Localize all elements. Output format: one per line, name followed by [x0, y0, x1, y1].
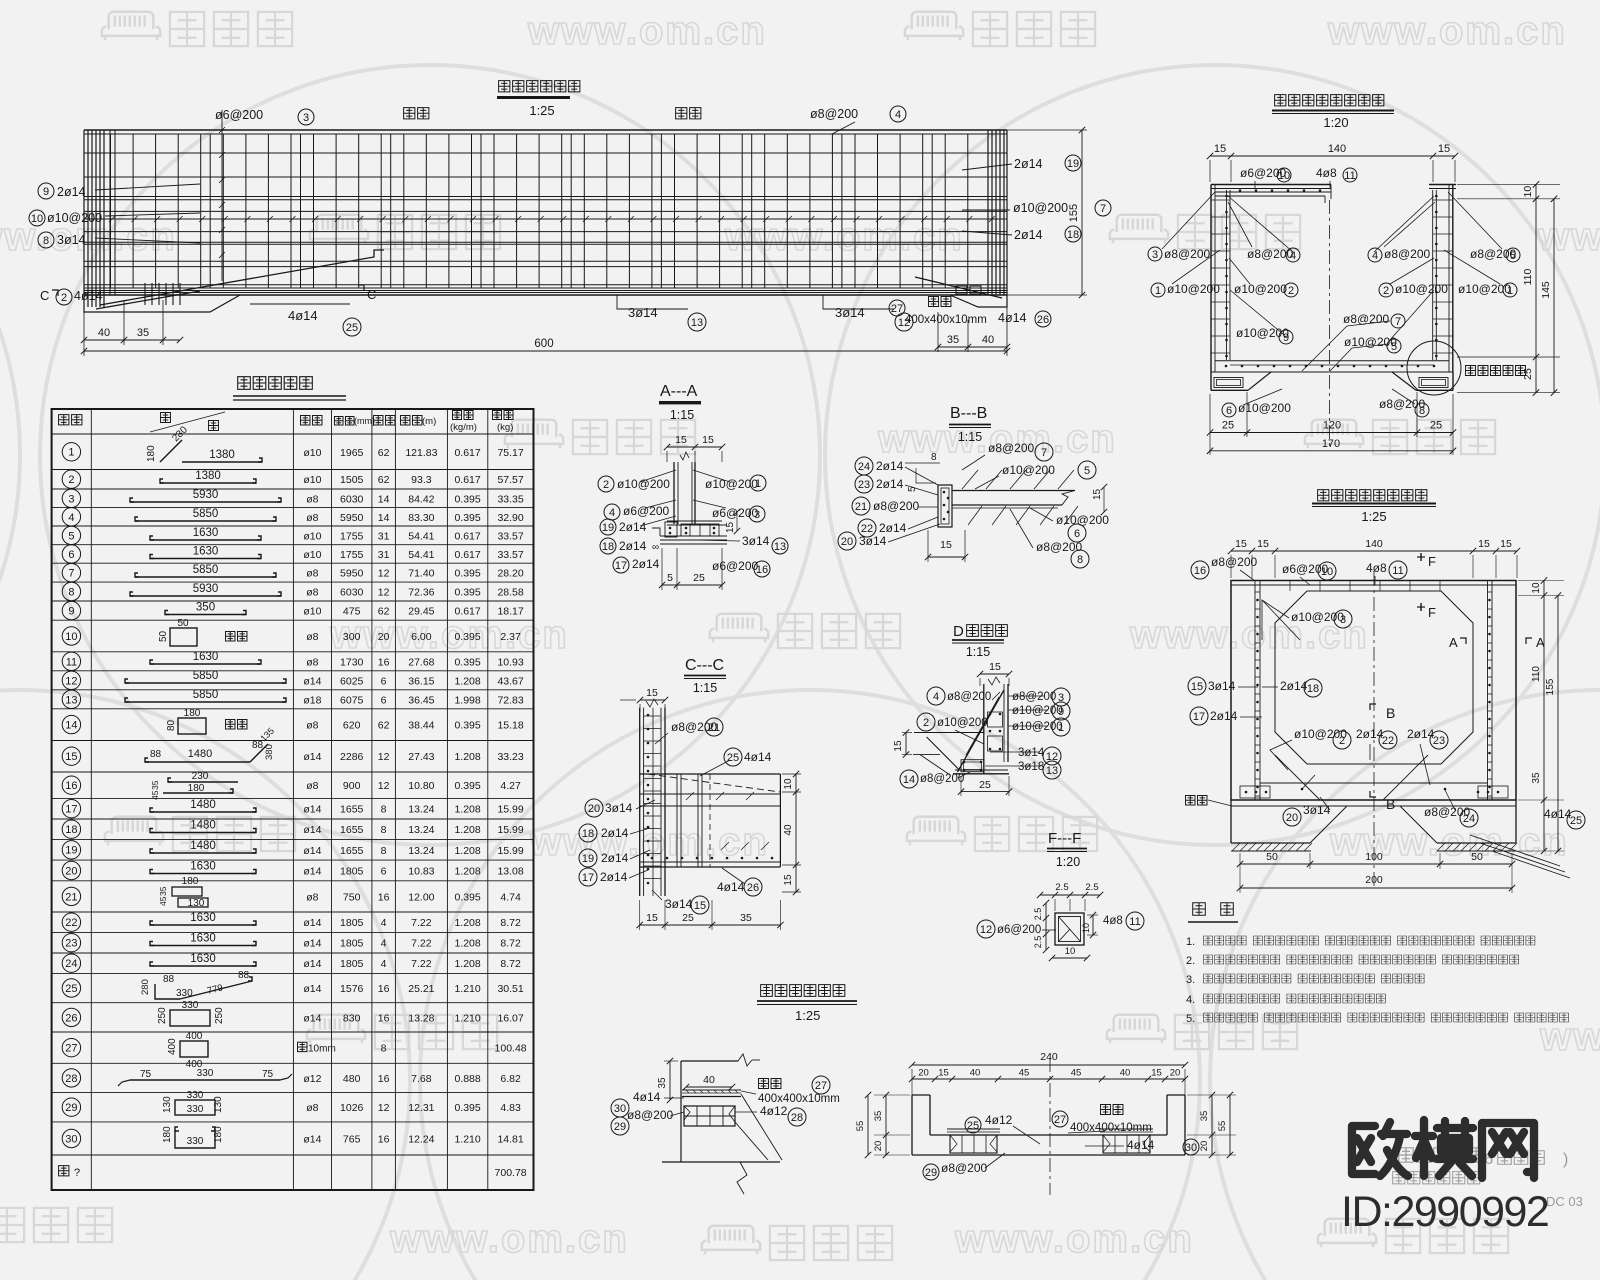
svg-text:29: 29 [614, 1121, 626, 1133]
svg-text:8.72: 8.72 [500, 917, 521, 929]
svg-text:50: 50 [158, 630, 169, 642]
svg-text:36.45: 36.45 [408, 694, 434, 706]
svg-text:180: 180 [213, 1126, 224, 1143]
svg-text:130: 130 [162, 1096, 173, 1113]
svg-text:2ø14: 2ø14 [632, 557, 660, 571]
svg-text:20: 20 [1286, 812, 1298, 824]
svg-text:30: 30 [614, 1103, 626, 1115]
svg-text:10mm: 10mm [308, 1044, 336, 1055]
svg-text:3ø14: 3ø14 [665, 897, 693, 911]
svg-text:12.24: 12.24 [408, 1134, 434, 1146]
svg-text:15: 15 [989, 661, 1001, 673]
svg-text:62: 62 [378, 606, 390, 618]
svg-text:ø10@200: ø10@200 [617, 477, 670, 491]
svg-text:88: 88 [252, 740, 264, 751]
svg-text:4: 4 [1290, 250, 1296, 262]
svg-text:16: 16 [378, 891, 390, 903]
svg-text:4ø12: 4ø12 [985, 1113, 1013, 1127]
svg-text:ø8: ø8 [306, 780, 318, 792]
svg-text:2.: 2. [1186, 955, 1195, 967]
svg-text:4.27: 4.27 [500, 780, 521, 792]
svg-text:ø10@200: ø10@200 [1167, 282, 1220, 296]
svg-text:ø10@200: ø10@200 [1238, 401, 1291, 415]
svg-text:16.07: 16.07 [497, 1012, 523, 1024]
svg-text:12: 12 [65, 675, 77, 687]
svg-text:15: 15 [702, 434, 714, 446]
svg-text:5950: 5950 [340, 568, 364, 580]
svg-text:8: 8 [1419, 405, 1425, 417]
svg-text:13.08: 13.08 [497, 866, 523, 878]
svg-text:12: 12 [378, 587, 390, 599]
svg-text:C: C [40, 288, 49, 303]
svg-text:71.40: 71.40 [408, 568, 434, 580]
svg-text:6030: 6030 [340, 493, 364, 505]
svg-text:F: F [1428, 554, 1436, 569]
svg-text:21: 21 [65, 891, 77, 903]
svg-text:20: 20 [1199, 1141, 1210, 1152]
svg-text:24: 24 [858, 461, 870, 473]
svg-text:26: 26 [65, 1012, 77, 1024]
svg-text:5930: 5930 [193, 583, 219, 595]
svg-text:7.22: 7.22 [411, 958, 432, 970]
svg-text:55: 55 [855, 1121, 866, 1132]
svg-text:230: 230 [192, 771, 209, 782]
svg-text:16: 16 [378, 983, 390, 995]
svg-text:): ) [1563, 1151, 1568, 1168]
svg-text:25: 25 [727, 752, 739, 764]
svg-text:ø10@200: ø10@200 [1002, 463, 1055, 477]
svg-text:2ø14: 2ø14 [876, 459, 904, 473]
svg-text:5850: 5850 [193, 670, 219, 682]
svg-text:19: 19 [582, 853, 594, 865]
svg-text:1: 1 [68, 447, 74, 459]
svg-text:ø10@200: ø10@200 [1234, 282, 1287, 296]
svg-text:62: 62 [378, 720, 390, 732]
svg-text:(kg): (kg) [497, 422, 513, 433]
svg-text:2.5: 2.5 [1033, 936, 1043, 949]
svg-text:120: 120 [1323, 420, 1341, 432]
svg-text:600: 600 [534, 338, 553, 350]
svg-text:4.83: 4.83 [500, 1102, 521, 1114]
svg-text:121.83: 121.83 [405, 447, 437, 459]
svg-text:A---A: A---A [660, 383, 698, 400]
svg-text:10: 10 [1531, 582, 1542, 594]
svg-text:35: 35 [1531, 772, 1542, 784]
svg-text:8: 8 [931, 452, 937, 463]
svg-text:ø18: ø18 [303, 694, 321, 706]
svg-text:83.30: 83.30 [408, 512, 434, 524]
svg-text:7: 7 [68, 568, 74, 580]
svg-text:1.210: 1.210 [454, 1134, 480, 1146]
svg-text:8: 8 [43, 235, 49, 247]
svg-text:2ø14: 2ø14 [1280, 679, 1308, 693]
svg-text:7.68: 7.68 [411, 1073, 432, 1085]
svg-text:ø10@200: ø10@200 [47, 211, 102, 225]
svg-text:145: 145 [1540, 281, 1552, 299]
svg-text:32.90: 32.90 [497, 512, 523, 524]
svg-text:180: 180 [182, 876, 199, 887]
svg-text:0.395: 0.395 [454, 493, 480, 505]
svg-text:620: 620 [343, 720, 361, 732]
svg-text:1655: 1655 [340, 824, 364, 836]
svg-text:10: 10 [783, 778, 794, 790]
svg-text:ø8: ø8 [306, 1102, 318, 1114]
svg-text:130: 130 [188, 898, 205, 909]
svg-text:25: 25 [1522, 368, 1534, 380]
svg-text:45: 45 [150, 790, 160, 800]
svg-text:18.17: 18.17 [497, 606, 523, 618]
svg-text:13.24: 13.24 [408, 804, 434, 816]
svg-text:28: 28 [791, 1112, 803, 1124]
svg-text:100.48: 100.48 [495, 1043, 527, 1055]
svg-text:14: 14 [378, 512, 390, 524]
svg-text:1630: 1630 [193, 651, 219, 663]
svg-text:15: 15 [940, 539, 952, 551]
svg-text:www.om.cn: www.om.cn [724, 215, 964, 259]
svg-text:0.395: 0.395 [454, 1102, 480, 1114]
svg-text:200: 200 [1365, 874, 1383, 886]
svg-text:ø8: ø8 [306, 631, 318, 643]
svg-text:27: 27 [65, 1043, 77, 1055]
svg-text:15: 15 [1235, 538, 1247, 550]
svg-text:17: 17 [615, 560, 627, 572]
svg-text:2ø14: 2ø14 [879, 521, 907, 535]
svg-text:35: 35 [150, 780, 160, 790]
svg-text:ø10@200: ø10@200 [1395, 282, 1448, 296]
svg-text:54.41: 54.41 [408, 549, 434, 561]
svg-text:7.22: 7.22 [411, 917, 432, 929]
svg-text:10: 10 [31, 213, 43, 225]
svg-text:45: 45 [1071, 1068, 1082, 1079]
svg-text:33.23: 33.23 [497, 751, 523, 763]
svg-text:330: 330 [197, 1068, 214, 1079]
svg-text:ø10: ø10 [303, 549, 321, 561]
svg-text:1480: 1480 [190, 840, 216, 852]
svg-text:5930: 5930 [193, 489, 219, 501]
svg-text:350: 350 [196, 602, 215, 614]
svg-text:10: 10 [1522, 186, 1534, 198]
svg-text:1805: 1805 [340, 958, 364, 970]
svg-text:ø8@200: ø8@200 [1211, 555, 1258, 569]
svg-text:6: 6 [381, 675, 387, 687]
svg-text:7: 7 [1395, 316, 1401, 328]
svg-text:1:25: 1:25 [529, 103, 554, 118]
svg-text:ø8@200: ø8@200 [941, 1161, 988, 1175]
svg-text:13.24: 13.24 [408, 824, 434, 836]
svg-text:300: 300 [343, 631, 361, 643]
svg-text:3ø14: 3ø14 [605, 801, 633, 815]
svg-text:www.om.cn: www.om.cn [954, 1217, 1194, 1261]
svg-text:17: 17 [65, 804, 77, 816]
svg-text:www.om.cn: www.om.cn [527, 9, 767, 53]
svg-text:2ø14: 2ø14 [1014, 157, 1043, 171]
svg-text:10: 10 [1081, 923, 1091, 933]
svg-text:1:15: 1:15 [966, 645, 990, 659]
faint drawing title text [1399, 1148, 1483, 1162]
svg-text:ø14: ø14 [303, 1134, 321, 1146]
svg-text:4ø8: 4ø8 [1366, 561, 1387, 575]
svg-text:62: 62 [378, 447, 390, 459]
svg-text:18: 18 [1067, 229, 1079, 241]
svg-text:25: 25 [979, 779, 991, 791]
svg-text:35: 35 [158, 886, 168, 896]
svg-text:ø8@200: ø8@200 [1164, 247, 1211, 261]
svg-text:ø10@200: ø10@200 [937, 717, 988, 729]
svg-text:(m): (m) [422, 416, 436, 427]
svg-text:8: 8 [1077, 554, 1083, 566]
svg-text:13.24: 13.24 [408, 845, 434, 857]
svg-text:4ø8: 4ø8 [1316, 166, 1337, 180]
U cross-section 渡槽槽身剖面配筋图 1:20 [1275, 95, 1384, 106]
svg-text:33.57: 33.57 [497, 549, 523, 561]
svg-text:36.15: 36.15 [408, 675, 434, 687]
svg-text:15: 15 [646, 687, 658, 699]
svg-text:ø8: ø8 [306, 656, 318, 668]
svg-text:8: 8 [68, 587, 74, 599]
svg-text:29: 29 [65, 1102, 77, 1114]
svg-text:1: 1 [755, 478, 761, 490]
svg-text:43.67: 43.67 [497, 675, 523, 687]
svg-text:ø8: ø8 [306, 493, 318, 505]
svg-text:38.44: 38.44 [408, 720, 434, 732]
svg-text:12: 12 [378, 1102, 390, 1114]
svg-text:9: 9 [68, 606, 74, 618]
svg-text:110: 110 [1531, 666, 1542, 682]
svg-text:4ø14: 4ø14 [288, 308, 318, 323]
svg-text:1380: 1380 [195, 470, 221, 482]
svg-text:88: 88 [150, 749, 162, 760]
svg-text:1:20: 1:20 [1056, 855, 1080, 869]
svg-text:3: 3 [754, 509, 760, 521]
svg-text:8: 8 [381, 804, 387, 816]
svg-text:15: 15 [1257, 538, 1269, 550]
svg-text:24: 24 [1463, 813, 1475, 825]
svg-text:1.208: 1.208 [454, 866, 480, 878]
svg-text:25: 25 [1222, 420, 1234, 432]
svg-text:62: 62 [378, 474, 390, 486]
svg-text:3: 3 [1152, 249, 1158, 261]
svg-text:ø14: ø14 [303, 917, 321, 929]
svg-text:330: 330 [187, 1136, 204, 1147]
svg-text:10.80: 10.80 [408, 780, 434, 792]
svg-text:0.395: 0.395 [454, 656, 480, 668]
svg-text:25: 25 [1430, 420, 1442, 432]
svg-text:14: 14 [65, 720, 77, 732]
svg-text:0.395: 0.395 [454, 780, 480, 792]
svg-text:1630: 1630 [190, 861, 216, 873]
svg-text:5: 5 [667, 572, 673, 584]
svg-text:750: 750 [343, 891, 361, 903]
svg-text:1.208: 1.208 [454, 938, 480, 950]
svg-text:ø8: ø8 [306, 891, 318, 903]
svg-text:18: 18 [582, 828, 594, 840]
svg-text:25: 25 [967, 1120, 979, 1132]
svg-text:13: 13 [691, 317, 703, 329]
svg-text:1.208: 1.208 [454, 917, 480, 929]
svg-text:0.395: 0.395 [454, 631, 480, 643]
svg-text:4: 4 [933, 691, 939, 703]
svg-text:ø8@200: ø8@200 [810, 107, 858, 121]
svg-text:19: 19 [602, 522, 614, 534]
svg-text:6: 6 [1226, 405, 1232, 417]
svg-text:16: 16 [378, 1134, 390, 1146]
title 渡槽纵向配筋图 [499, 81, 580, 92]
svg-text:3.: 3. [1186, 974, 1195, 986]
svg-text:5850: 5850 [193, 508, 219, 520]
svg-text:22: 22 [65, 917, 77, 929]
svg-text:250: 250 [214, 1007, 225, 1024]
svg-text:15: 15 [1214, 143, 1226, 155]
svg-text:ø14: ø14 [303, 845, 321, 857]
svg-text:26: 26 [1037, 314, 1049, 326]
svg-text:88: 88 [238, 970, 250, 981]
svg-text:2ø14: 2ø14 [876, 477, 904, 491]
svg-text:15: 15 [1478, 538, 1490, 550]
svg-text:17: 17 [1193, 711, 1205, 723]
svg-text:1.210: 1.210 [454, 1012, 480, 1024]
svg-text:ø10@200: ø10@200 [1013, 201, 1068, 215]
svg-text:ø14: ø14 [303, 675, 321, 687]
svg-text:2ø14: 2ø14 [1014, 228, 1043, 242]
svg-text:72.83: 72.83 [497, 694, 523, 706]
svg-text:400: 400 [167, 1038, 178, 1055]
elevation view 渡槽纵向配筋图 1:25 [84, 129, 1007, 131]
svg-text:1.208: 1.208 [454, 751, 480, 763]
svg-text:16: 16 [756, 564, 768, 576]
svg-text:250: 250 [157, 1007, 168, 1024]
svg-text:1:20: 1:20 [1323, 115, 1348, 130]
svg-text:30: 30 [1185, 1142, 1197, 1154]
svg-text:4ø14: 4ø14 [998, 311, 1027, 325]
svg-text:ø8@200: ø8@200 [1384, 247, 1431, 261]
svg-text:2: 2 [1288, 285, 1294, 297]
svg-text:5.: 5. [1186, 1013, 1195, 1025]
svg-text:10: 10 [1321, 566, 1333, 578]
svg-text:5: 5 [1391, 341, 1397, 353]
svg-text:4ø14: 4ø14 [1127, 1138, 1155, 1152]
svg-text:15: 15 [675, 434, 687, 446]
svg-text:26: 26 [747, 882, 759, 894]
svg-text:1: 1 [1058, 722, 1064, 734]
svg-text:14: 14 [903, 774, 915, 786]
svg-text:15.99: 15.99 [497, 845, 523, 857]
svg-text:ø14: ø14 [303, 958, 321, 970]
svg-text:(mm): (mm) [354, 416, 375, 426]
svg-text:130: 130 [213, 1096, 224, 1113]
svg-text:F: F [1428, 605, 1436, 620]
svg-text:10: 10 [65, 631, 77, 643]
svg-text:15.99: 15.99 [497, 804, 523, 816]
svg-text:72.36: 72.36 [408, 587, 434, 599]
svg-text:25: 25 [65, 983, 77, 995]
svg-text:ø14: ø14 [303, 824, 321, 836]
svg-text:ø10: ø10 [303, 474, 321, 486]
svg-text:35: 35 [657, 1077, 668, 1089]
svg-text:54.41: 54.41 [408, 530, 434, 542]
svg-text:1805: 1805 [340, 917, 364, 929]
svg-text:6025: 6025 [340, 675, 364, 687]
svg-text:1.208: 1.208 [454, 845, 480, 857]
svg-text:13: 13 [1046, 765, 1058, 777]
svg-text:12.31: 12.31 [408, 1102, 434, 1114]
svg-text:11: 11 [1392, 565, 1403, 577]
svg-text:33.57: 33.57 [497, 530, 523, 542]
svg-text:155: 155 [1068, 204, 1080, 222]
svg-text:9: 9 [43, 186, 49, 198]
svg-text:ø10: ø10 [303, 606, 321, 618]
svg-text:1655: 1655 [340, 804, 364, 816]
svg-text:0.395: 0.395 [454, 568, 480, 580]
svg-text:0.617: 0.617 [454, 549, 480, 561]
svg-text:31: 31 [378, 530, 390, 542]
svg-text:3ø14: 3ø14 [1208, 679, 1236, 693]
svg-text:33.35: 33.35 [497, 493, 523, 505]
svg-text:5850: 5850 [193, 564, 219, 576]
svg-text:11: 11 [1129, 916, 1140, 928]
svg-text:10.93: 10.93 [497, 656, 523, 668]
svg-text:6: 6 [1074, 528, 1080, 540]
svg-text:20: 20 [378, 631, 390, 643]
svg-text:15: 15 [1438, 143, 1450, 155]
svg-text:15: 15 [646, 912, 658, 924]
svg-text:8.72: 8.72 [500, 958, 521, 970]
svg-text:18: 18 [65, 824, 77, 836]
svg-text:40: 40 [970, 1068, 981, 1079]
svg-text:75.17: 75.17 [497, 447, 523, 459]
svg-text:2286: 2286 [340, 751, 364, 763]
svg-text:15: 15 [893, 740, 904, 752]
svg-text:7: 7 [1041, 447, 1047, 459]
svg-text:57.57: 57.57 [497, 474, 523, 486]
svg-text:17: 17 [582, 872, 594, 884]
svg-text:180: 180 [162, 1126, 173, 1143]
svg-text:0.395: 0.395 [454, 587, 480, 599]
svg-text:13.28: 13.28 [408, 1012, 434, 1024]
svg-text:ø6@200: ø6@200 [997, 924, 1041, 936]
svg-text:35: 35 [873, 1111, 884, 1122]
svg-text:140: 140 [1328, 143, 1346, 155]
svg-text:3: 3 [1340, 614, 1346, 626]
svg-text:4ø14: 4ø14 [717, 880, 745, 894]
svg-text:1630: 1630 [193, 527, 219, 539]
svg-text:12: 12 [378, 568, 390, 580]
svg-text:1480: 1480 [190, 799, 216, 811]
svg-text:3ø14: 3ø14 [57, 233, 86, 247]
svg-text:180: 180 [146, 445, 157, 462]
svg-text:15.18: 15.18 [497, 720, 523, 732]
svg-text:30: 30 [65, 1133, 77, 1145]
svg-text:20: 20 [918, 1068, 929, 1079]
svg-text:2.5: 2.5 [1033, 908, 1043, 921]
svg-text:480: 480 [343, 1073, 361, 1085]
svg-text:0.395: 0.395 [454, 891, 480, 903]
svg-text:15: 15 [1191, 681, 1203, 693]
svg-text:20: 20 [1170, 1068, 1181, 1079]
svg-text:15: 15 [65, 751, 77, 763]
svg-text:25: 25 [682, 912, 694, 924]
svg-text:8: 8 [381, 845, 387, 857]
svg-text:16: 16 [378, 656, 390, 668]
svg-text:4: 4 [895, 109, 901, 121]
svg-text:23: 23 [1433, 735, 1445, 747]
svg-text:4ø12: 4ø12 [760, 1104, 788, 1118]
svg-text:12: 12 [378, 751, 390, 763]
svg-text:35: 35 [740, 912, 752, 924]
svg-text:ø10@200: ø10@200 [1012, 705, 1063, 717]
svg-text:∞: ∞ [652, 542, 659, 553]
svg-text:?: ? [74, 1167, 80, 1179]
svg-text:50: 50 [177, 618, 189, 629]
